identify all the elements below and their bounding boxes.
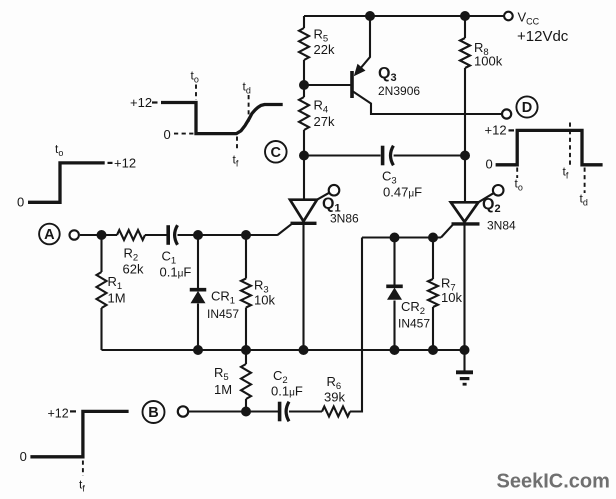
svg-text:0.1μF: 0.1μF [271,384,303,399]
svg-text:SeekIC.com: SeekIC.com [497,471,610,493]
svg-text:B: B [148,405,158,421]
svg-text:+12Vdc: +12Vdc [517,28,569,45]
svg-text:+12: +12 [485,123,507,138]
svg-text:10k: 10k [254,293,275,308]
svg-text:10k: 10k [441,290,462,305]
svg-text:D: D [522,100,532,116]
svg-text:62k: 62k [123,262,144,277]
svg-text:IN457: IN457 [398,317,430,331]
svg-text:2N3906: 2N3906 [378,84,420,98]
svg-text:3N84: 3N84 [487,219,516,233]
svg-text:+12: +12 [130,95,152,110]
svg-text:0.47μF: 0.47μF [383,185,422,200]
svg-text:0: 0 [164,127,171,142]
svg-text:C: C [271,145,282,161]
svg-text:0: 0 [486,157,493,172]
svg-text:+12: +12 [48,407,69,421]
svg-text:+12: +12 [114,155,136,170]
svg-text:1M: 1M [214,382,232,397]
svg-text:0: 0 [17,195,24,210]
svg-text:A: A [44,227,55,243]
svg-text:3N86: 3N86 [330,212,359,226]
svg-text:0: 0 [20,449,27,464]
svg-text:0.1μF: 0.1μF [160,265,192,280]
svg-text:IN457: IN457 [207,307,239,321]
svg-text:27k: 27k [314,114,335,129]
svg-text:39k: 39k [324,390,345,405]
svg-text:22k: 22k [314,42,335,57]
svg-text:100k: 100k [474,54,503,69]
svg-text:1M: 1M [108,291,126,306]
